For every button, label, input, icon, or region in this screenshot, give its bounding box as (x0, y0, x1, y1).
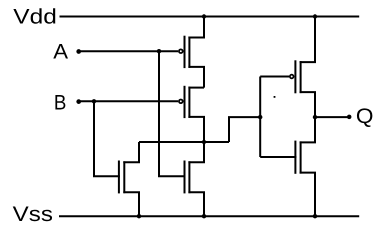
output Q terminal dot (347, 115, 352, 120)
input A terminal dot (76, 49, 81, 54)
svg-text:Q: Q (356, 105, 374, 128)
svg-text:Vss: Vss (13, 203, 53, 226)
wire B to M2 gate bubble (78, 100, 178, 102)
wire to M6 gate (260, 156, 296, 158)
wire A to M1 gate bubble (78, 50, 178, 52)
output node junction dot (313, 115, 317, 119)
inverter input junction dot (258, 115, 262, 119)
wire A down to M4 gate (159, 51, 186, 176)
junction dot M6 source on Vss (313, 214, 317, 218)
Vdd rail (60, 16, 360, 18)
pmos M1 (gate A, NOR pull-up top) (179, 17, 204, 88)
pmos M5 (inverter pull-up) (290, 17, 315, 118)
node B junction dot (92, 99, 96, 103)
wire node X horizontal (139, 141, 229, 143)
junction dot M5 source on Vdd (313, 14, 317, 18)
nmos M3 (gate B, NOR pull-down left) (119, 142, 139, 216)
wire output to Q (315, 116, 349, 118)
junction dot M3 source on Vss (137, 214, 141, 218)
svg-text:A: A (53, 40, 68, 63)
node X junction dot (NOR output at M2 drain) (202, 140, 206, 144)
junction dot M4 source on Vss (202, 214, 206, 218)
svg-text:Vdd: Vdd (13, 5, 57, 28)
junction dot M1 source on Vdd (202, 14, 206, 18)
Vss rail (59, 215, 359, 217)
stray dot artifact (274, 96, 276, 98)
wire node X step up to inverter input (229, 117, 260, 142)
wire inverter input vertical (259, 77, 261, 158)
input B terminal dot (76, 99, 81, 104)
wire to M5 gate bubble (260, 76, 289, 78)
wire B down to M3 gate (94, 101, 120, 176)
node A junction dot (157, 49, 161, 53)
nmos M4 (gate A, NOR pull-down right) (185, 142, 205, 216)
nmos M6 (inverter pull-down) (295, 117, 315, 216)
pmos M2 (gate B, NOR pull-up bottom) (179, 86, 204, 142)
svg-text:B: B (54, 91, 67, 114)
